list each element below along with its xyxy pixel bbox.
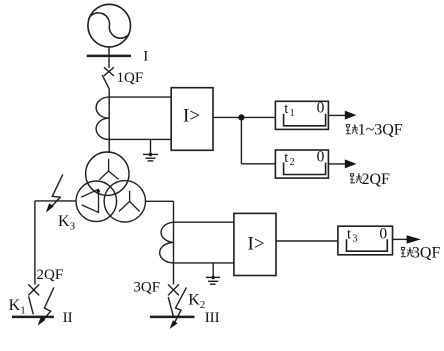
- ground 2: [206, 263, 220, 284]
- svg-text:K: K: [9, 297, 21, 314]
- time relay t2: [275, 148, 328, 178]
- svg-text:t: t: [284, 101, 288, 117]
- wire right feeder down: [173, 201, 175, 284]
- label trip 3QF: [401, 245, 440, 262]
- label K3: [58, 213, 76, 233]
- arrow output t1: [345, 111, 357, 120]
- svg-text:t: t: [284, 150, 288, 166]
- fault arrow K1: [38, 287, 54, 325]
- svg-text:3QF: 3QF: [133, 280, 160, 296]
- wire to t2: [241, 163, 275, 165]
- svg-text:I>: I>: [183, 106, 200, 127]
- ground 1: [143, 139, 158, 161]
- svg-text:3: 3: [70, 220, 76, 232]
- svg-text:2QF: 2QF: [362, 171, 391, 188]
- overcurrent relay 1 (I>): [171, 88, 213, 151]
- svg-text:III: III: [205, 310, 220, 326]
- svg-text:3QF: 3QF: [412, 245, 441, 262]
- fault arrow K3: [46, 174, 63, 212]
- svg-text:2QF: 2QF: [37, 267, 64, 283]
- bus II: [12, 316, 54, 319]
- current transformer CT1 (two bumps): [96, 97, 109, 139]
- time relay t1: [275, 100, 328, 130]
- wire t2 output: [328, 163, 345, 165]
- svg-text:1: 1: [20, 304, 26, 316]
- time relay t3: [338, 225, 393, 255]
- breaker 3QF (x mark + blade): [168, 284, 179, 316]
- label trip 2QF: [350, 171, 390, 188]
- wire relay 2 output to t3: [276, 240, 338, 242]
- label trip 1~3QF: [346, 122, 403, 139]
- arrow output t3: [407, 235, 421, 243]
- svg-text:I>: I>: [248, 233, 265, 254]
- wire t3 output: [393, 238, 408, 240]
- svg-text:0: 0: [317, 148, 325, 165]
- wire breaker to transformer: [108, 90, 110, 153]
- svg-text:K: K: [188, 292, 200, 309]
- svg-text:I: I: [143, 49, 148, 65]
- wye symbol (top winding): [99, 159, 118, 180]
- arrow output t2: [345, 159, 357, 168]
- svg-text:1~3QF: 1~3QF: [358, 122, 403, 139]
- svg-text:II: II: [63, 310, 73, 326]
- svg-text:1QF: 1QF: [117, 70, 144, 86]
- wire left feeder down: [34, 201, 36, 285]
- delta symbol (left winding): [81, 188, 100, 212]
- wire CT1 bottom to relay 1: [109, 138, 171, 140]
- overcurrent relay 2 (I>): [234, 213, 276, 275]
- wire CT2 bottom to relay 2: [174, 262, 234, 264]
- wire CT2 top to relay 2: [174, 221, 234, 223]
- wire t1 output: [328, 114, 345, 116]
- breaker 1QF (x mark + blade): [102, 67, 114, 89]
- label K2: [188, 292, 205, 312]
- current transformer CT2 (two bumps): [160, 222, 174, 263]
- wire CT1 top to relay 1: [109, 96, 171, 98]
- svg-text:t: t: [347, 227, 351, 243]
- svg-text:K: K: [58, 213, 70, 230]
- wire junction down: [240, 117, 242, 163]
- wire transformer right winding to corner: [145, 200, 173, 202]
- breaker 2QF (x mark + blade): [28, 284, 39, 314]
- label K1: [9, 297, 26, 317]
- svg-text:2: 2: [290, 157, 295, 168]
- wire bus I to breaker 1QF: [108, 57, 110, 68]
- junction node: [238, 114, 244, 120]
- generator G (AC source): [88, 4, 131, 47]
- svg-text:3: 3: [352, 234, 357, 245]
- bus III: [150, 316, 195, 319]
- wire generator to bus I: [108, 47, 110, 55]
- svg-text:1: 1: [290, 108, 295, 119]
- wye symbol (right winding): [119, 191, 140, 212]
- svg-text:0: 0: [317, 100, 325, 117]
- wire relay 1 output: [213, 116, 275, 118]
- three-winding transformer T: [76, 152, 146, 222]
- wire transformer left winding to left feeder: [35, 200, 76, 202]
- svg-text:0: 0: [379, 225, 387, 242]
- bus I: [87, 55, 131, 58]
- fault arrow K2: [170, 287, 187, 329]
